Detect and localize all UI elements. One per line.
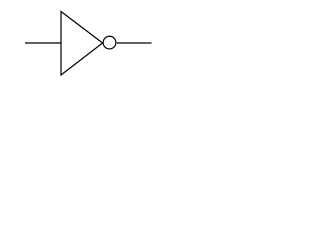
inversion bubble	[103, 36, 116, 49]
wire output	[117, 42, 152, 44]
wire input	[25, 42, 61, 44]
inverter triangle U1	[61, 12, 103, 76]
